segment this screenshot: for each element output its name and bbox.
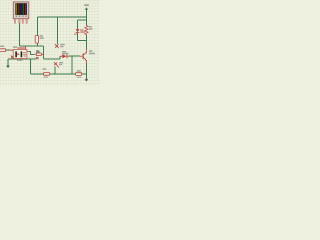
resistor R6 (base-emitter, box style) [76,70,82,78]
wire loop bottom [78,39,87,41]
sensor pin 1 [14,19,15,24]
resistor R5 (bottom mid, box style) [42,68,49,77]
wire probe2 stub [54,66,56,74]
resistor R4 (base series, box style) [34,50,43,55]
wire ground net horizontal [8,58,36,60]
resistor R1 (pull-up, box style) [35,35,44,43]
resistor R3 (left, clipped) [0,46,6,52]
wire ground net down x30.6 [30,59,32,74]
wire sensor net down x43.5 [43,46,45,59]
sensor pin 2 [19,19,20,24]
ground (emitter) [85,79,89,82]
pin cross at ground wire end [36,57,39,59]
wire probe1 stem [57,17,59,44]
resistor R2 (zigzag, LED series) [85,26,93,35]
power symbol VCC [84,4,89,10]
diode D2 [60,51,69,58]
sensor pin 4 [26,19,27,24]
ground (left) [6,65,10,68]
wire collector drop [85,40,87,49]
wire R2 branch upper [85,20,87,26]
wire to ground symbol [7,59,9,66]
sensor module MOIST1 [13,2,28,19]
wire opto collector out [28,50,31,52]
transistor Q1 [80,49,95,63]
sensor pin 3 [22,19,23,24]
wire bottom net [31,73,87,75]
wire opto out down [30,51,32,54]
wire R2 branch lower [85,35,87,41]
wire power drop [85,10,87,20]
wire loop top [78,19,87,21]
voltage probe 2 [54,62,63,68]
wire diode to base [69,55,80,57]
wire R3 to opto [6,49,11,51]
wire pull-up branch x37.3 [36,17,38,46]
wire jog horizontal [44,58,60,60]
probe X on ground wire [11,56,14,59]
wire to R4 left [31,53,34,55]
wire jog up [59,56,61,59]
voltage probe 1 [55,44,65,48]
wire LED branch upper [77,20,79,29]
wire LED branch lower [77,33,79,40]
optocoupler U1 [10,46,28,61]
wire VCC rail [37,16,86,18]
wire sensor pin2 down [18,23,20,46]
wire emitter down [85,63,87,79]
LED D1 [74,29,85,35]
wire sensor net horizontal [19,45,43,47]
wire base branch down x72 [71,56,73,74]
